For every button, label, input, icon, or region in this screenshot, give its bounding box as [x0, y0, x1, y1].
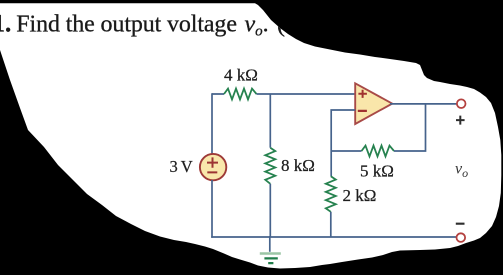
terminal: output bottom	[457, 233, 466, 242]
wire: 2k branch to bottom	[330, 212, 332, 237]
wire: feedback right segment up to output	[394, 104, 426, 151]
wire: left branch down to source	[211, 93, 213, 154]
resistor 4 kOhm	[224, 89, 257, 100]
wire: feedback left segment	[331, 150, 361, 152]
wire: left branch below source	[211, 180, 213, 238]
wire: 8k branch from top wire	[269, 94, 271, 148]
wire: output wire	[390, 103, 457, 105]
label + output	[456, 116, 465, 125]
svg-text:2 kΩ: 2 kΩ	[343, 186, 377, 205]
svg-text:8 kΩ: 8 kΩ	[281, 156, 315, 175]
resistor 8 kOhm	[265, 148, 275, 184]
svg-text:3 V: 3 V	[170, 157, 193, 176]
terminal: output top	[457, 99, 466, 108]
resistor 2 kOhm	[326, 176, 336, 212]
wire: top wire left segment	[212, 93, 224, 95]
label - output	[456, 223, 465, 225]
wire: 8k branch to bottom	[269, 184, 271, 237]
resistor 5 kOhm	[362, 146, 395, 157]
wire: bottom wire	[211, 236, 457, 238]
op-amp U1	[355, 83, 392, 124]
title text	[0, 10, 301, 39]
svg-text:5 kΩ: 5 kΩ	[360, 162, 394, 181]
ground	[260, 236, 281, 263]
wire: top wire right segment to op-amp	[257, 93, 356, 95]
source V1 3V	[200, 154, 226, 180]
wire: inverting input wire	[331, 110, 355, 176]
svg-text:4 kΩ: 4 kΩ	[224, 66, 258, 85]
